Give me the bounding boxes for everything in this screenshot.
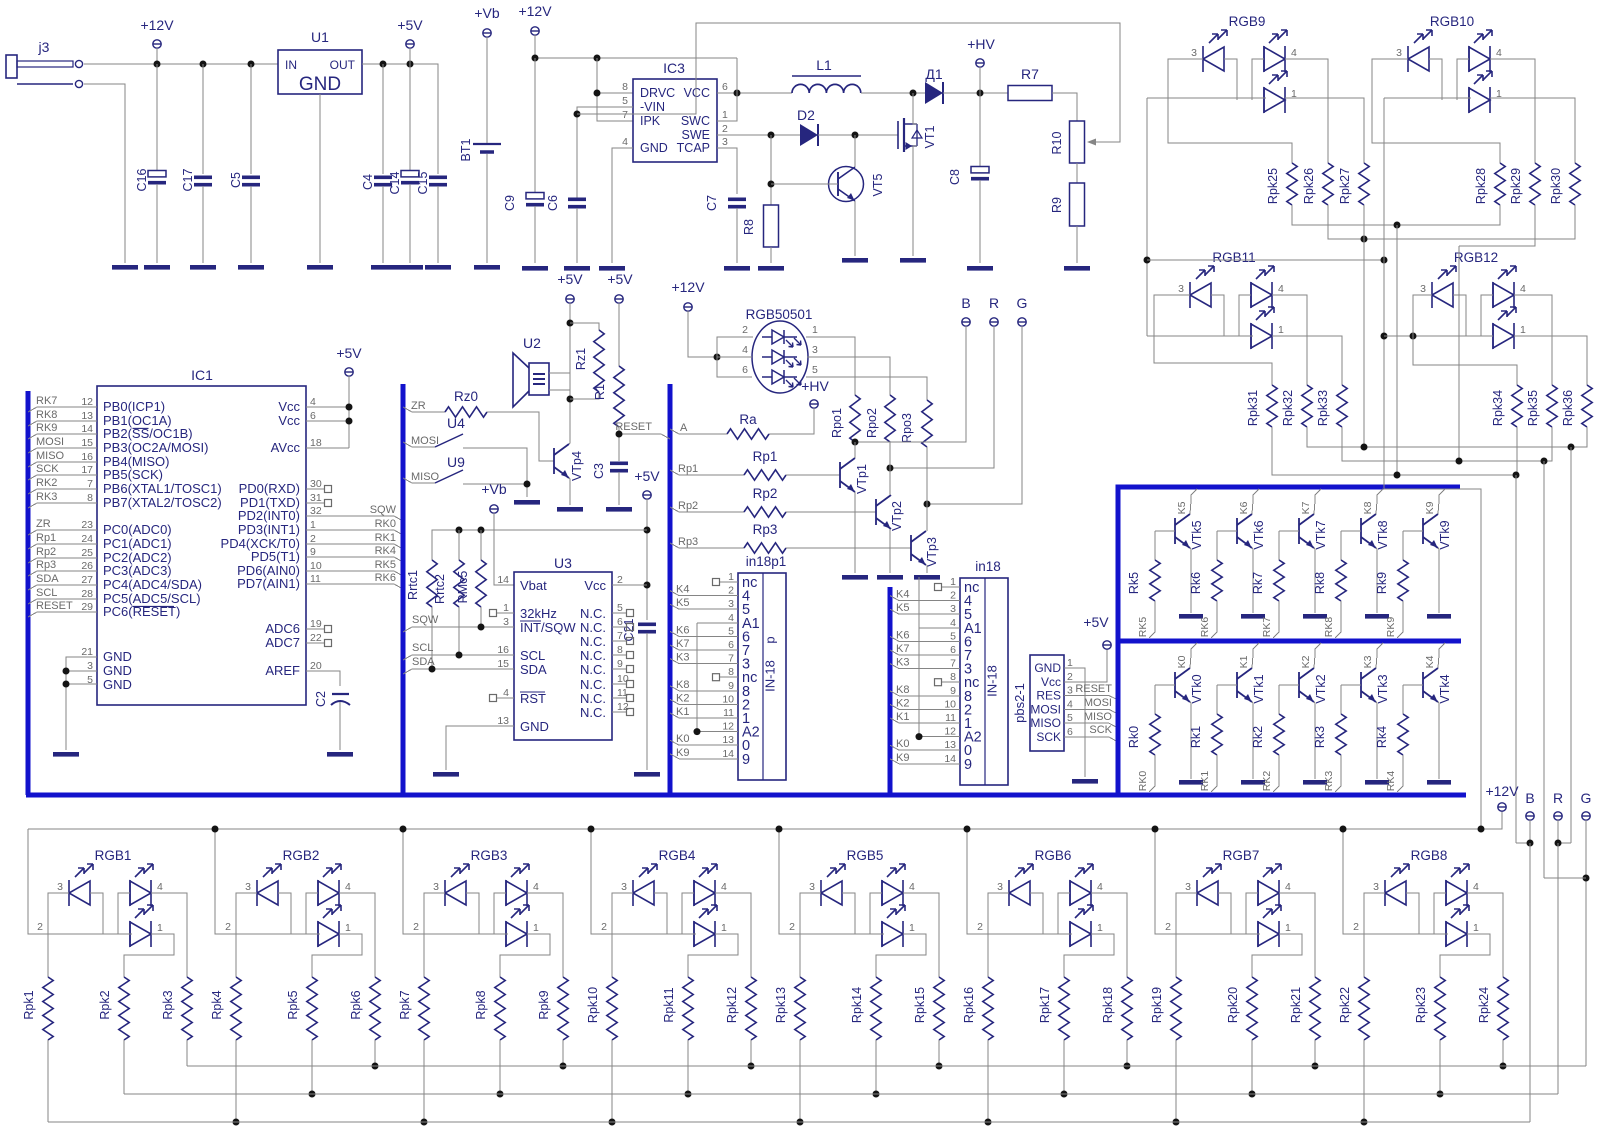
svg-text:Rpk22: Rpk22 — [1338, 987, 1352, 1023]
svg-text:SCL: SCL — [520, 648, 545, 663]
svg-text:1: 1 — [950, 576, 956, 588]
wire RGB3 pin1 to Rpk8 — [500, 934, 550, 977]
wire VTk5 collector to bus net K5 — [1190, 489, 1197, 514]
wire Rpk15 to rail — [938, 1040, 940, 1066]
svg-text:RK9: RK9 — [1385, 617, 1397, 638]
wire Rpk27 to rail B — [1363, 205, 1365, 239]
wire VTp4 collector — [569, 443, 570, 444]
wire Rk4 to bus net RK4 — [1397, 755, 1403, 792]
wire RGB8 pin4 to Rpk24 — [1467, 893, 1503, 977]
svg-text:SDA: SDA — [412, 656, 435, 668]
ground — [1427, 780, 1451, 785]
svg-text:RK0: RK0 — [1137, 771, 1149, 792]
svg-text:7: 7 — [950, 658, 956, 670]
svg-text:PD0(RXD): PD0(RXD) — [239, 481, 300, 496]
IC1 pin 27 PC4(ADC4/SDA) net SDA — [28, 573, 202, 592]
svg-text:K2: K2 — [1300, 655, 1312, 668]
svg-text:4: 4 — [1278, 283, 1284, 295]
svg-text:C15: C15 — [416, 171, 430, 194]
svg-text:2: 2 — [617, 574, 623, 586]
wire pbs2-1 MOSI net — [1064, 709, 1118, 714]
svg-text:R1: R1 — [593, 384, 607, 400]
svg-text:Vcc: Vcc — [584, 578, 606, 593]
wire DRVC/IPK feed — [597, 58, 633, 121]
U3 pin4 RST nc — [497, 697, 514, 699]
ground — [1179, 780, 1203, 785]
IC1 pin 22 ADC7 — [265, 632, 331, 650]
svg-text:U9: U9 — [447, 454, 465, 470]
svg-text:K5: K5 — [676, 597, 689, 609]
svg-text:1: 1 — [722, 109, 728, 121]
svg-text:K1: K1 — [896, 711, 909, 723]
wire RGB8 common from +12V rail — [1343, 829, 1448, 934]
svg-text:K4: K4 — [676, 584, 689, 596]
svg-text:C9: C9 — [503, 195, 517, 211]
wire chain rail B — [1328, 205, 1575, 239]
svg-text:3: 3 — [1067, 685, 1073, 697]
svg-text:RGB7: RGB7 — [1223, 848, 1260, 863]
svg-text:2: 2 — [950, 590, 956, 602]
wire RGB5 common from +12V rail — [779, 829, 884, 934]
svg-text:14: 14 — [81, 423, 93, 435]
ground — [758, 266, 784, 271]
svg-text:Vcc: Vcc — [278, 399, 300, 414]
wire RGB1 pin4 to Rpk3 — [151, 893, 187, 977]
svg-text:K0: K0 — [896, 738, 909, 750]
svg-text:3: 3 — [1396, 47, 1402, 59]
wire +5V rtc pullup rail — [432, 530, 647, 560]
svg-text:in18: in18 — [975, 559, 1001, 574]
svg-text:1: 1 — [533, 922, 539, 934]
RGB LED module RGB6 — [997, 848, 1103, 947]
svg-text:K2: K2 — [896, 697, 909, 709]
wire Rpk17 to rail — [1063, 1040, 1065, 1094]
svg-text:3: 3 — [728, 598, 734, 610]
svg-text:6: 6 — [722, 81, 728, 93]
svg-text:1: 1 — [728, 571, 734, 583]
svg-text:3: 3 — [812, 344, 818, 356]
wire in18p1 net K8 — [670, 686, 738, 691]
svg-text:+12V: +12V — [518, 3, 552, 19]
transistor VTk5 — [1175, 514, 1190, 548]
wire in18 net K3 — [890, 664, 960, 669]
svg-text:K3: K3 — [676, 652, 689, 664]
wire Rz0 to VTp4 base — [487, 412, 554, 461]
wire Rpk3 to rail — [186, 1040, 188, 1066]
svg-text:MOSI: MOSI — [36, 436, 64, 448]
svg-text:19: 19 — [310, 618, 322, 630]
wire RGB12 pin3 to Rpk34 — [1413, 295, 1517, 385]
IC1 pin 32 PD2(INT0) — [238, 504, 403, 523]
ground — [842, 258, 868, 263]
svg-text:RGB3: RGB3 — [471, 848, 508, 863]
svg-text:Rpk17: Rpk17 — [1038, 987, 1052, 1023]
svg-text:PB3(OC2A/MOSI): PB3(OC2A/MOSI) — [103, 440, 208, 455]
wire RGB10 pin3 to Rpk28 — [1372, 59, 1500, 163]
svg-text:+HV: +HV — [801, 378, 829, 394]
U3 left pin numbers — [497, 574, 509, 727]
svg-text:R10: R10 — [1050, 131, 1064, 154]
wire B rail bottom — [48, 1121, 1530, 1123]
svg-text:VTk7: VTk7 — [1314, 520, 1328, 549]
wire VTk3 emitter to ground — [1376, 702, 1377, 779]
svg-text:PB7(XTAL2/TOSC2): PB7(XTAL2/TOSC2) — [103, 495, 222, 510]
svg-text:N.C.: N.C. — [580, 620, 606, 635]
svg-text:K9: K9 — [676, 747, 689, 759]
ground — [474, 265, 500, 270]
wire RGB9 pin3 to Rpk25 — [1168, 59, 1292, 163]
battery BT1 — [459, 5, 501, 161]
IC1 pin 7 PB6(XTAL1/TOSC1) net RK2 — [28, 477, 222, 496]
svg-text:Rpk36: Rpk36 — [1561, 390, 1575, 426]
svg-text:20: 20 — [310, 660, 322, 672]
svg-text:26: 26 — [81, 560, 93, 572]
ground — [425, 265, 451, 270]
wire SDA net — [403, 669, 514, 674]
IC1 pin 1 PD3(INT1) — [238, 518, 403, 537]
svg-text:2: 2 — [225, 921, 231, 933]
svg-text:7: 7 — [87, 478, 93, 490]
RGB LED module RGB1 — [57, 848, 163, 947]
IC1 pin 15 PB3(OC2A/MOSI) net MOSI — [28, 436, 208, 455]
wire VTk2 emitter to ground — [1314, 702, 1315, 779]
svg-text:21: 21 — [81, 646, 93, 658]
svg-text:4: 4 — [721, 881, 727, 893]
transistor VT5 — [829, 167, 886, 202]
wire VT5 base — [771, 183, 838, 185]
svg-text:1: 1 — [1285, 922, 1291, 934]
svg-text:11: 11 — [310, 573, 321, 585]
diode D2 — [797, 107, 818, 146]
wire RGB4 pin4 to Rpk12 — [715, 893, 751, 977]
ground — [877, 575, 903, 580]
svg-text:RST: RST — [520, 691, 546, 706]
svg-text:VT1: VT1 — [923, 125, 937, 148]
svg-text:Rp1: Rp1 — [753, 449, 778, 464]
svg-text:Rpk27: Rpk27 — [1338, 168, 1352, 204]
transistor VTk0 — [1175, 668, 1190, 702]
svg-text:U3: U3 — [554, 555, 572, 571]
wire D1 to +HV — [943, 92, 1008, 94]
svg-text:RGB6: RGB6 — [1035, 848, 1072, 863]
bus cathode box middle rail — [1118, 639, 1461, 644]
wire speaker terminals — [549, 372, 570, 374]
wire in18p1 net K2 — [670, 699, 738, 704]
svg-text:Rpk32: Rpk32 — [1281, 390, 1295, 426]
svg-text:5: 5 — [812, 364, 818, 376]
svg-text:5: 5 — [950, 630, 956, 642]
svg-text:PD7(AIN1): PD7(AIN1) — [237, 576, 300, 591]
svg-text:3: 3 — [1373, 881, 1379, 893]
IC1 pin 12 PB0(ICP1) net RK7 — [28, 395, 165, 414]
svg-text:N.C.: N.C. — [580, 648, 606, 663]
svg-text:1: 1 — [1097, 922, 1103, 934]
ground — [724, 266, 750, 271]
svg-text:Rk9: Rk9 — [1375, 572, 1389, 594]
svg-text:3: 3 — [1178, 283, 1184, 295]
svg-text:K3: K3 — [896, 657, 909, 669]
svg-text:1: 1 — [1473, 922, 1479, 934]
resistor Rk1 — [1217, 684, 1237, 686]
svg-text:3: 3 — [1191, 47, 1197, 59]
RGB LED module RGB9 — [1191, 14, 1297, 113]
svg-text:3: 3 — [722, 136, 728, 148]
svg-text:6: 6 — [728, 639, 734, 651]
wire RGB1 pin3 to Rpk1 — [48, 893, 69, 977]
svg-text:K6: K6 — [896, 629, 909, 641]
svg-text:K4: K4 — [896, 589, 909, 601]
RTC U3 — [514, 555, 612, 740]
svg-text:Rp2: Rp2 — [753, 486, 778, 501]
wire RGB7 pin3 to Rpk19 — [1176, 893, 1197, 977]
wire B drop — [1515, 475, 1517, 843]
svg-text:+5V: +5V — [607, 271, 633, 287]
svg-text:RK7: RK7 — [1261, 617, 1273, 638]
wire VT1 source to ground — [913, 146, 917, 256]
IC1 PC6 RESET overline — [133, 605, 175, 607]
wire in18 anode A1 A2 — [919, 627, 960, 629]
svg-text:Rpk9: Rpk9 — [537, 990, 551, 1019]
svg-text:U2: U2 — [523, 335, 541, 351]
svg-text:K3: K3 — [1362, 655, 1374, 668]
svg-text:VTk8: VTk8 — [1376, 520, 1390, 549]
svg-text:Rpo3: Rpo3 — [900, 413, 914, 443]
wire in18 net K4 — [890, 596, 960, 601]
svg-text:Rpk23: Rpk23 — [1414, 987, 1428, 1023]
svg-text:1: 1 — [812, 324, 818, 336]
svg-text:2: 2 — [310, 533, 316, 545]
ground — [606, 507, 632, 512]
svg-text:10: 10 — [310, 560, 322, 572]
IC1 pin 30 PD0(RXD) — [239, 478, 332, 496]
svg-text:N.C.: N.C. — [580, 677, 606, 692]
svg-text:R8: R8 — [742, 219, 756, 235]
svg-text:ZR: ZR — [36, 518, 51, 530]
svg-text:Rpk31: Rpk31 — [1246, 390, 1260, 426]
svg-text:14: 14 — [497, 574, 509, 586]
wire Rpk9 to rail — [562, 1040, 564, 1066]
svg-text:4: 4 — [157, 881, 163, 893]
transistor VTk6 — [1237, 514, 1252, 548]
wire VTk8 emitter to ground — [1376, 548, 1377, 613]
svg-text:2: 2 — [1353, 921, 1359, 933]
svg-text:4: 4 — [909, 881, 915, 893]
svg-text:SCK: SCK — [1089, 724, 1112, 736]
wire SWE node — [717, 134, 800, 136]
svg-text:GND: GND — [103, 677, 132, 692]
svg-text:Rk3: Rk3 — [1313, 726, 1327, 748]
resistor Rk8 — [1341, 530, 1361, 532]
wire net A to in18p1 — [694, 728, 701, 735]
svg-text:Rpk10: Rpk10 — [586, 987, 600, 1023]
ground — [1427, 614, 1451, 619]
svg-text:MISO: MISO — [1084, 711, 1113, 723]
svg-text:+5V: +5V — [1083, 614, 1109, 630]
svg-text:3: 3 — [1185, 881, 1191, 893]
in18 nc pins — [942, 586, 960, 588]
svg-text:Rz0: Rz0 — [454, 389, 478, 404]
svg-text:MISO: MISO — [411, 471, 440, 483]
svg-text:K5: K5 — [896, 602, 909, 614]
svg-text:D2: D2 — [797, 107, 815, 123]
svg-text:3: 3 — [433, 881, 439, 893]
svg-text:+Vb: +Vb — [474, 5, 500, 21]
wire Rpk8 to rail — [499, 1040, 501, 1094]
wire +Vb to U3 Vbat — [494, 513, 514, 585]
svg-text:PC4(ADC4/SDA): PC4(ADC4/SDA) — [103, 577, 202, 592]
connector pbs2-1 — [1012, 655, 1073, 751]
svg-text:32: 32 — [310, 505, 322, 517]
wire Rk8 to bus net RK8 — [1335, 601, 1341, 638]
svg-text:PD3(INT1): PD3(INT1) — [238, 522, 300, 537]
ground — [1303, 780, 1327, 785]
wire VTk5 emitter to ground — [1190, 548, 1191, 613]
svg-text:Rpk18: Rpk18 — [1101, 987, 1115, 1023]
wire in18 net K1 — [890, 718, 960, 723]
svg-text:MOSI: MOSI — [1030, 702, 1061, 716]
wire U3 Vcc — [612, 584, 647, 586]
IC1 pin 31 PD1(TXD) — [240, 492, 331, 510]
wire VCC node — [717, 92, 792, 94]
svg-text:RGB12: RGB12 — [1454, 250, 1498, 265]
svg-text:pbs2-1: pbs2-1 — [1012, 683, 1027, 723]
IC1 microcontroller — [97, 367, 306, 705]
svg-text:Rk2: Rk2 — [1251, 726, 1265, 748]
svg-text:GND: GND — [520, 719, 549, 734]
resistor Rk0 — [1155, 684, 1175, 686]
wire Rpk20 to rail — [1251, 1040, 1253, 1094]
bus section2 left — [401, 384, 406, 795]
svg-text:8: 8 — [728, 666, 734, 678]
svg-text:Rp3: Rp3 — [753, 522, 778, 537]
IC1 pin 23 PC0(ADC0) net ZR — [28, 518, 172, 537]
connector in18p1 — [722, 554, 786, 780]
svg-text:PC0(ADC0): PC0(ADC0) — [103, 522, 172, 537]
svg-text:4: 4 — [1473, 881, 1479, 893]
svg-text:RGB9: RGB9 — [1229, 14, 1266, 29]
svg-text:G: G — [1017, 295, 1028, 311]
svg-text:PD5(T1): PD5(T1) — [251, 549, 300, 564]
wire in18p1 net K4 — [670, 591, 738, 596]
svg-text:+5V: +5V — [397, 17, 423, 33]
svg-text:RK4: RK4 — [375, 545, 396, 557]
svg-text:4: 4 — [345, 881, 351, 893]
svg-text:Rpk20: Rpk20 — [1226, 987, 1240, 1023]
resistor Rk4 — [1403, 684, 1423, 686]
IC1 pin 4 Vcc — [278, 396, 349, 414]
RGB LED module RGB10 — [1396, 14, 1502, 113]
svg-text:RMc5: RMc5 — [456, 571, 470, 604]
bus section3 left — [668, 384, 673, 795]
wire RGB9 pin2 common — [1147, 97, 1266, 99]
svg-text:14: 14 — [722, 748, 734, 760]
wire in18 net K9 — [890, 759, 960, 764]
RGB LED module RGB12 — [1420, 250, 1526, 349]
RGB LED module RGB8 — [1373, 848, 1479, 947]
svg-text:SCL: SCL — [36, 587, 57, 599]
svg-text:RK8: RK8 — [1323, 617, 1335, 638]
wire RGB5 pin1 to Rpk14 — [876, 934, 926, 977]
svg-text:PB0(ICP1): PB0(ICP1) — [103, 399, 165, 414]
wire U9 to gnd node — [463, 483, 527, 485]
wire Rk3 to bus net RK3 — [1335, 755, 1341, 792]
svg-text:K6: K6 — [676, 624, 689, 636]
svg-text:Rpk7: Rpk7 — [398, 990, 412, 1019]
wire R rail bottom — [124, 1093, 1558, 1095]
RGB LED module RGB5 — [809, 848, 915, 947]
svg-text:K9: K9 — [896, 752, 909, 764]
svg-text:IN: IN — [285, 58, 297, 72]
wire VTk9 emitter to ground — [1438, 548, 1439, 613]
wire Rpk13 to rail — [799, 1040, 801, 1122]
svg-text:Rpk16: Rpk16 — [962, 987, 976, 1023]
svg-text:K0: K0 — [1176, 655, 1188, 668]
svg-text:N.C.: N.C. — [580, 705, 606, 720]
svg-text:RGB1: RGB1 — [95, 848, 132, 863]
switch U9 — [403, 454, 465, 483]
svg-text:C2: C2 — [314, 691, 328, 707]
svg-text:2: 2 — [601, 921, 607, 933]
wire RGB50501 pin5 to Rpo3 — [806, 377, 927, 400]
svg-text:RK7: RK7 — [36, 395, 57, 407]
ground — [634, 772, 660, 777]
svg-text:Rk6: Rk6 — [1189, 572, 1203, 594]
wire Rpk21 to rail — [1314, 1040, 1316, 1066]
IC1 pin 8 PB7(XTAL2/TOSC2) net RK3 — [28, 491, 222, 510]
svg-text:+12V: +12V — [140, 17, 174, 33]
svg-text:8: 8 — [622, 81, 628, 93]
wire +12V rail j3 to U1 — [84, 63, 278, 65]
svg-text:RK9: RK9 — [36, 422, 57, 434]
wire RGB5 pin3 to Rpk13 — [800, 893, 821, 977]
svg-text:RGB10: RGB10 — [1430, 14, 1474, 29]
svg-text:U1: U1 — [311, 29, 329, 45]
wire RGB7 pin1 to Rpk20 — [1252, 934, 1302, 977]
wire in18 net K7 — [890, 650, 960, 655]
wire SCL net — [403, 655, 514, 660]
svg-text:1: 1 — [310, 519, 316, 531]
ground — [190, 265, 216, 270]
wire +5V speaker rail — [569, 303, 571, 443]
wire RGB9 pin4 to Rpk26 — [1285, 59, 1328, 163]
svg-text:25: 25 — [81, 547, 93, 559]
transistor VTk2 — [1299, 668, 1314, 702]
svg-text:R: R — [1553, 790, 1563, 806]
svg-text:Rpk1: Rpk1 — [22, 990, 36, 1019]
resistor Rk3 — [1341, 684, 1361, 686]
svg-text:12: 12 — [722, 721, 734, 733]
svg-text:Vcc: Vcc — [1041, 675, 1061, 689]
svg-text:IC1: IC1 — [191, 367, 213, 383]
wire Rk1 to bus net RK1 — [1211, 755, 1217, 792]
svg-text:12: 12 — [944, 726, 956, 738]
wire G to VTp3 collector — [927, 326, 1022, 504]
wire in18p1 net K1 — [670, 713, 738, 718]
transistor VTk9 — [1423, 514, 1438, 548]
wire RGB8 pin3 to Rpk22 — [1364, 893, 1385, 977]
ground — [1365, 614, 1389, 619]
wire +12V to IC3 — [535, 57, 737, 59]
svg-text:L1: L1 — [816, 57, 832, 73]
speaker U2 — [513, 335, 549, 407]
svg-text:Rk0: Rk0 — [1127, 726, 1141, 748]
svg-text:1: 1 — [909, 922, 915, 934]
svg-text:Rrtc1: Rrtc1 — [406, 570, 420, 600]
svg-text:Rrtc2: Rrtc2 — [433, 574, 447, 604]
ground — [1072, 779, 1098, 784]
LED RGB50501 — [742, 307, 818, 393]
svg-text:RK1: RK1 — [375, 532, 396, 544]
